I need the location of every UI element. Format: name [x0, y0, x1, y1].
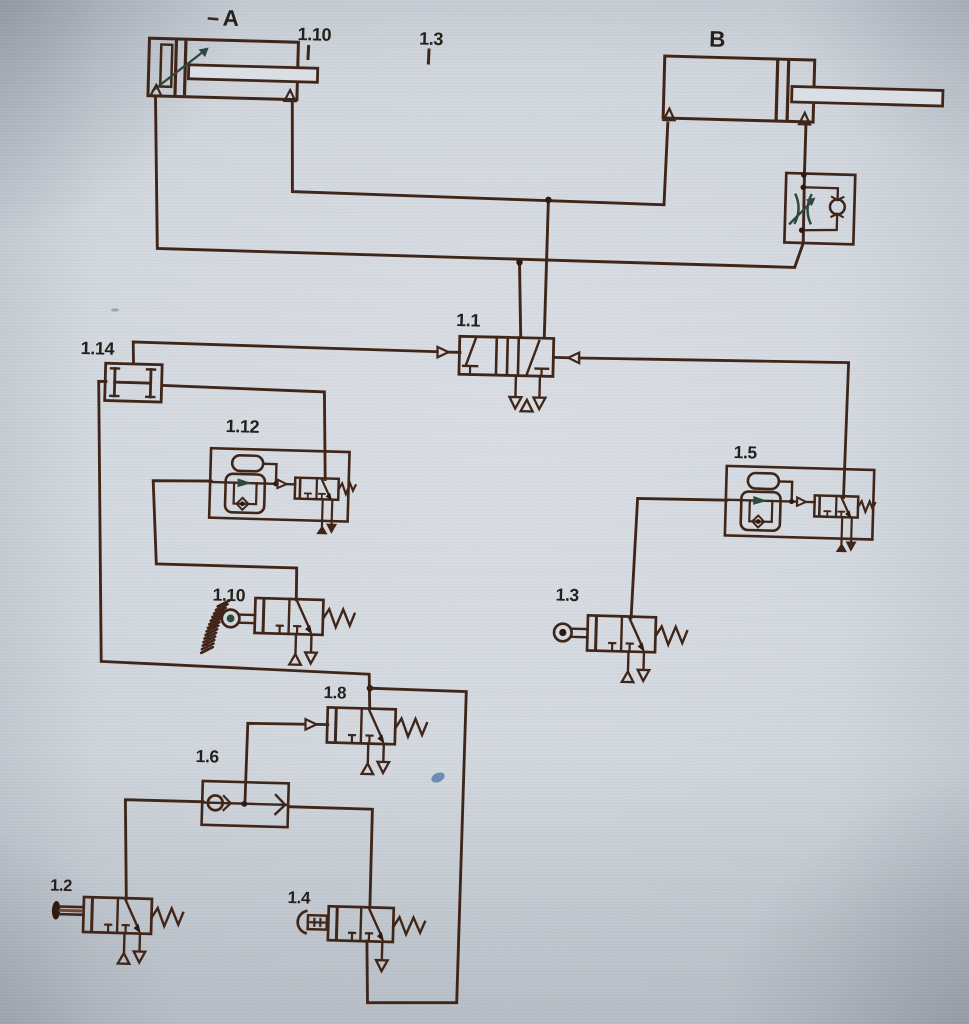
wire: reservoir 1.14 to left pilot of 1.1	[133, 342, 437, 363]
svg-text:B: B	[709, 27, 726, 52]
roller actuator of 1.10	[222, 609, 256, 628]
valve 1.10 body	[254, 598, 355, 666]
check valve 1.6	[202, 781, 289, 827]
time delay valve 1.5	[725, 466, 874, 540]
wire: 1.6 output to 1.4 top port	[289, 807, 373, 907]
svg-text:1.10: 1.10	[212, 585, 246, 606]
wire: junction to valve 1.1 top port (left)	[520, 262, 521, 337]
reservoir 1.14	[105, 363, 163, 402]
pushbutton actuator of 1.2	[51, 901, 83, 921]
valve 1.8 body	[326, 707, 427, 775]
wire: junction to valve 1.1 top port (right)	[544, 200, 548, 337]
wire: right pilot of 1.1 to time delay 1.5	[554, 356, 568, 359]
time delay valve 1.12	[209, 448, 349, 521]
wire: 1.12 throttle input from 1.10 output	[153, 481, 297, 600]
svg-text:1.3: 1.3	[419, 29, 444, 50]
valve 1.2 body	[82, 897, 183, 965]
wire: 1.2 output up to 1.6 input	[125, 800, 203, 899]
svg-text:1.10: 1.10	[297, 24, 331, 45]
svg-text:1.6: 1.6	[195, 746, 219, 767]
wire: 1.6 tap to 1.8 pilot	[245, 723, 305, 804]
cylinder B	[663, 56, 944, 128]
svg-text:1.12: 1.12	[225, 416, 259, 437]
flow control valve (throttle + check)	[784, 172, 855, 245]
svg-text:1.2: 1.2	[50, 877, 72, 896]
palm button actuator of 1.4	[297, 911, 327, 934]
cylinder A	[148, 38, 319, 102]
valve 1.4 body	[327, 906, 425, 972]
svg-text:1.1: 1.1	[456, 310, 481, 331]
svg-text:1.5: 1.5	[733, 442, 757, 463]
lever cam (hatched) for 1.10	[201, 601, 229, 653]
roller actuator of 1.3	[554, 623, 588, 642]
wire: cylinder A left port - long bottom line - flow control - cylinder B right port	[156, 97, 807, 267]
svg-text:1.3: 1.3	[555, 585, 579, 606]
wire: reservoir 1.14 down-left, to 1.8 top, to bottom loop, to 1.4 supply	[99, 381, 370, 708]
wire: cylinder A right port - cylinder B left port	[292, 100, 668, 205]
wire: 1.14 to 1.12 valve top	[162, 385, 325, 479]
svg-text:1.14: 1.14	[80, 338, 114, 359]
svg-text:1.8: 1.8	[323, 683, 346, 703]
wire: 1.3 output to 1.5 throttle input	[631, 498, 727, 617]
5/2-way valve 1.1	[458, 336, 554, 412]
svg-text:1.4: 1.4	[287, 888, 311, 908]
svg-text:A: A	[222, 6, 239, 31]
valve 1.3 body	[586, 615, 687, 683]
